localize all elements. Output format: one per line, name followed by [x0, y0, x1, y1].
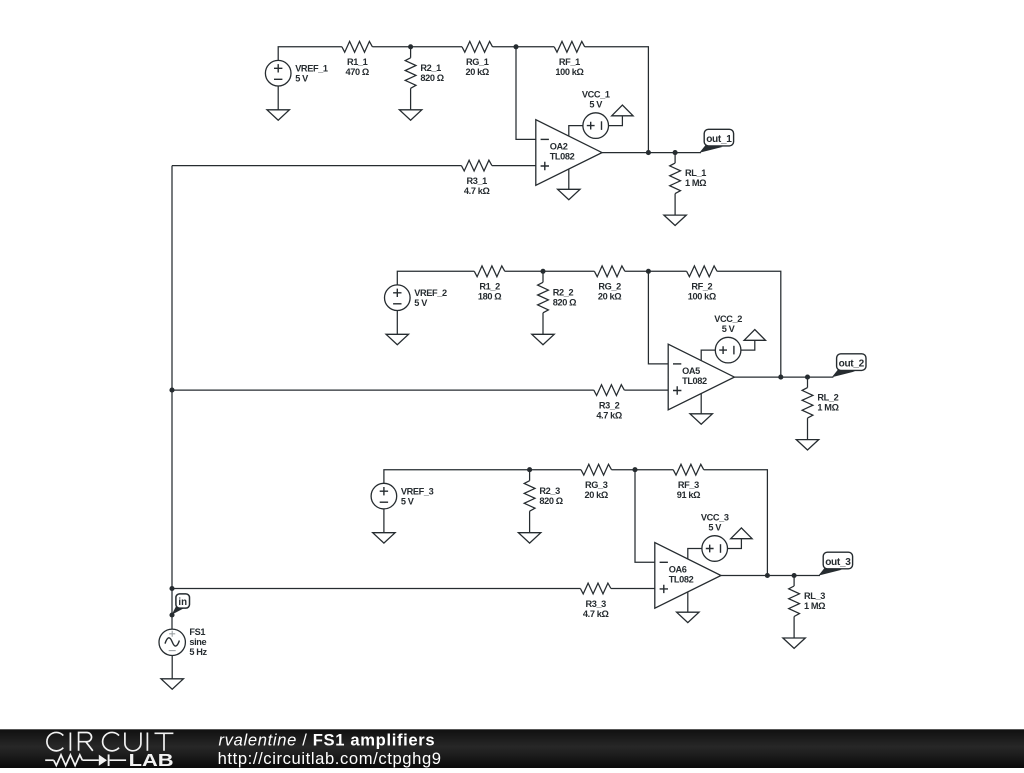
wire FS1 to ground [171, 656, 173, 679]
svg-text:VCC_3: VCC_3 [701, 512, 729, 522]
junction feedback node 1 [513, 44, 518, 49]
ground below R2_1 [399, 110, 421, 120]
svg-text:R2_1: R2_1 [420, 63, 441, 73]
wire feedback to - input 1 [516, 47, 536, 140]
wire RG_3 to RF_3 [612, 469, 674, 471]
svg-text:180 Ω: 180 Ω [478, 292, 501, 302]
ground below VREF_2 [386, 334, 408, 344]
wire V- pin to ground 3 [687, 592, 689, 612]
svg-text:RL_2: RL_2 [817, 392, 838, 402]
svg-text:20 kΩ: 20 kΩ [466, 67, 489, 77]
net flag out_1 [699, 129, 733, 152]
svg-text:R3_3: R3_3 [585, 599, 606, 609]
voltage source VCC_1 [583, 113, 609, 139]
resistor RL_3 [789, 586, 800, 617]
svg-text:in: in [178, 597, 187, 608]
wire V- pin to ground 1 [568, 169, 570, 189]
resistor R3_1 [461, 160, 492, 171]
voltage source VREF_1 [265, 60, 291, 86]
resistor R2_3 [524, 481, 535, 512]
svg-text:1 MΩ: 1 MΩ [804, 601, 825, 611]
wire output to RL_3 [793, 576, 795, 587]
junction output-feedback 2 [778, 375, 783, 380]
resistor RL_1 [670, 163, 681, 194]
svg-text:4.7 kΩ: 4.7 kΩ [464, 186, 490, 196]
ground below op-amp OA5 [690, 414, 712, 424]
junction output-feedback 1 [646, 150, 651, 155]
wire RG_2 to RF_2 [625, 270, 687, 272]
svg-text:out_1: out_1 [706, 134, 732, 145]
wire VREF_1 to R1_1 [278, 47, 342, 61]
svg-text:OA2: OA2 [550, 141, 568, 151]
wire VCC_2 to supply arrow [741, 340, 755, 350]
op-amp OA5 [668, 344, 734, 410]
net flag out_2 [832, 354, 866, 377]
svg-text:TL082: TL082 [550, 151, 575, 161]
wire in to R3_1 [172, 165, 461, 167]
svg-text:820 Ω: 820 Ω [539, 496, 562, 506]
junction output-RL_1 [673, 150, 678, 155]
svg-text:RG_3: RG_3 [585, 480, 608, 490]
op-amp OA2 [536, 120, 602, 186]
resistor RF_3 [673, 464, 704, 475]
svg-text:VREF_2: VREF_2 [414, 288, 447, 298]
svg-text:820 Ω: 820 Ω [420, 73, 443, 83]
svg-text:TL082: TL082 [669, 574, 694, 584]
wire feedback to - input 3 [635, 470, 655, 563]
wire VREF_1 to ground [277, 86, 279, 110]
wire VREF_3 to ground [383, 509, 385, 533]
wire output net 1 [602, 152, 701, 154]
wire node to R2_3 [529, 470, 531, 481]
junction output-feedback 3 [765, 573, 770, 578]
wire RL_2 to ground [807, 418, 809, 440]
wire node to RG_2 [543, 270, 594, 272]
svg-text:1 MΩ: 1 MΩ [817, 402, 838, 412]
svg-text:5 V: 5 V [708, 522, 722, 532]
wire VREF_2 to R1_2 [397, 271, 474, 285]
voltage source VCC_2 [715, 337, 741, 363]
ground below RL_3 [783, 638, 805, 648]
signal source FS1 [159, 629, 185, 655]
svg-text:OA5: OA5 [682, 366, 700, 376]
resistor R2_1 [405, 58, 416, 89]
resistor RG_3 [581, 464, 612, 475]
junction feedback node 3 [632, 467, 637, 472]
svg-text:4.7 kΩ: 4.7 kΩ [583, 609, 609, 619]
wire VCC_1 to supply arrow [609, 116, 623, 126]
wire R2_1 to ground [410, 88, 412, 110]
resistor RF_2 [687, 266, 718, 277]
svg-text:VCC_1: VCC_1 [582, 89, 610, 99]
svg-text:TL082: TL082 [682, 376, 707, 386]
wire V+ pin to VCC_2 [701, 350, 715, 361]
svg-text:LAB: LAB [129, 750, 174, 768]
svg-text:91 kΩ: 91 kΩ [677, 490, 700, 500]
ground below R2_3 [518, 533, 540, 543]
resistor R3_3 [580, 583, 611, 594]
voltage source VREF_3 [371, 483, 397, 509]
ground below FS1 [161, 679, 183, 689]
junction node R2_2 [540, 269, 545, 274]
wire node to R2_1 [410, 47, 412, 58]
wire V+ pin to VCC_3 [688, 549, 702, 560]
svg-text:5 V: 5 V [589, 99, 603, 109]
wire R2_3 to ground [529, 511, 531, 533]
wire RG_1 to RF_1 [493, 46, 555, 48]
svg-text:20 kΩ: 20 kΩ [598, 292, 621, 302]
ground below R2_2 [532, 334, 554, 344]
resistor R1_2 [474, 266, 505, 277]
svg-text:R2_3: R2_3 [539, 486, 560, 496]
svg-text:RF_1: RF_1 [559, 57, 580, 67]
wire R3_3 to + input OA6 [611, 588, 655, 590]
wire V+ pin to VCC_1 [569, 126, 583, 137]
resistor R1_1 [342, 41, 373, 52]
ground below op-amp OA6 [677, 612, 699, 622]
wire RL_1 to ground [674, 194, 676, 216]
supply arrow VCC_1 [612, 105, 633, 116]
wire RF_1 to output node [585, 47, 649, 153]
wire node to RG_1 [411, 46, 462, 48]
svg-text:RF_2: RF_2 [691, 282, 712, 292]
wire input trunk vertical [171, 166, 173, 629]
net flag in [172, 594, 190, 615]
junction trunk to stage 2 [169, 388, 174, 393]
svg-text:1 MΩ: 1 MΩ [685, 178, 706, 188]
svg-text:R1_1: R1_1 [347, 57, 368, 67]
supply arrow VCC_2 [744, 330, 765, 341]
ground below op-amp OA2 [558, 189, 580, 199]
wire V- pin to ground 2 [700, 394, 702, 414]
wire output to RL_1 [674, 153, 676, 164]
svg-text:R3_2: R3_2 [599, 401, 620, 411]
resistor RG_2 [594, 266, 625, 277]
wire RL_3 to ground [793, 617, 795, 639]
svg-text:RG_1: RG_1 [466, 57, 489, 67]
junction in flag [169, 612, 174, 617]
junction output-RL_3 [792, 573, 797, 578]
wire VCC_3 to supply arrow [728, 539, 742, 549]
svg-text:820 Ω: 820 Ω [553, 297, 576, 307]
svg-text:VREF_3: VREF_3 [401, 487, 434, 497]
svg-text:http://circuitlab.com/ctpghg9: http://circuitlab.com/ctpghg9 [218, 749, 442, 768]
junction output-RL_2 [805, 375, 810, 380]
CircuitLab logo CIRCUIT [47, 732, 173, 750]
svg-text:RF_3: RF_3 [678, 480, 699, 490]
ground below VREF_1 [267, 110, 289, 120]
svg-text:5 Hz: 5 Hz [189, 647, 207, 657]
ground below RL_2 [796, 440, 818, 450]
voltage source VCC_3 [702, 536, 728, 562]
wire R3_2 to + input OA5 [624, 389, 668, 391]
op-amp OA6 [655, 543, 721, 609]
svg-text:out_3: out_3 [825, 557, 851, 568]
voltage source VREF_2 [385, 285, 411, 311]
svg-text:20 kΩ: 20 kΩ [585, 490, 608, 500]
supply arrow VCC_3 [731, 528, 752, 539]
resistor RG_1 [462, 41, 493, 52]
wire feedback to - input 2 [648, 271, 668, 364]
svg-text:RG_2: RG_2 [598, 282, 621, 292]
wire in to R3_3 [172, 588, 580, 590]
svg-text:100 kΩ: 100 kΩ [688, 292, 716, 302]
svg-text:VCC_2: VCC_2 [714, 314, 742, 324]
svg-text:R1_2: R1_2 [479, 282, 500, 292]
wire output net 2 [734, 376, 833, 378]
svg-text:RL_1: RL_1 [685, 168, 706, 178]
CircuitLab logo resistor-diode squiggle [45, 754, 126, 766]
svg-text:VREF_1: VREF_1 [295, 64, 328, 74]
resistor RF_1 [554, 41, 585, 52]
wire node to R2_2 [542, 271, 544, 282]
svg-text:R2_2: R2_2 [553, 287, 574, 297]
junction trunk to stage 3 [169, 586, 174, 591]
svg-text:R3_1: R3_1 [466, 176, 487, 186]
svg-text:FS1: FS1 [189, 627, 205, 637]
resistor R2_2 [538, 282, 549, 313]
svg-text:rvalentine / FS1 amplifiers: rvalentine / FS1 amplifiers [219, 731, 436, 750]
svg-text:4.7 kΩ: 4.7 kΩ [596, 411, 622, 421]
junction node R2_1 [408, 44, 413, 49]
wire R1_2 to node [505, 270, 543, 272]
junction feedback node 2 [646, 269, 651, 274]
svg-text:5 V: 5 V [401, 497, 415, 507]
wire RF_3 to output node [704, 470, 768, 576]
ground below RL_1 [664, 215, 686, 225]
svg-text:RL_3: RL_3 [804, 591, 825, 601]
svg-text:OA6: OA6 [669, 564, 687, 574]
wire VREF_2 to ground [396, 311, 398, 335]
wire RF_2 to output node [717, 271, 781, 377]
net flag out_3 [818, 552, 852, 575]
wire node to RG_3 [530, 469, 581, 471]
svg-text:5 V: 5 V [722, 324, 736, 334]
wire VREF_3 to node [384, 470, 530, 484]
svg-text:100 kΩ: 100 kΩ [555, 67, 583, 77]
wire in to R3_2 [172, 389, 594, 391]
resistor RL_2 [802, 388, 813, 419]
svg-text:5 V: 5 V [414, 298, 428, 308]
wire R1_1 to node [372, 46, 410, 48]
junction node R2_3 [527, 467, 532, 472]
svg-text:sine: sine [189, 637, 206, 647]
svg-text:470 Ω: 470 Ω [346, 67, 369, 77]
resistor R3_2 [594, 385, 625, 396]
wire output to RL_2 [807, 377, 809, 388]
wire R2_2 to ground [542, 313, 544, 335]
svg-text:5 V: 5 V [295, 74, 309, 84]
wire output net 3 [721, 575, 820, 577]
svg-text:out_2: out_2 [839, 359, 865, 370]
wire R3_1 to + input OA2 [492, 165, 536, 167]
ground below VREF_3 [373, 533, 395, 543]
